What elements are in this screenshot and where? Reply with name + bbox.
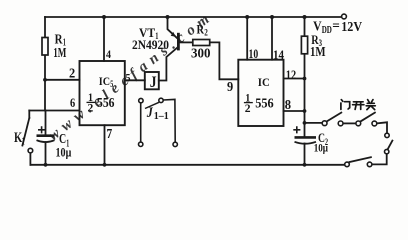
svg-text:556: 556 bbox=[255, 97, 274, 112]
svg-text:10μ: 10μ bbox=[56, 145, 72, 160]
svg-text:J: J bbox=[150, 74, 157, 91]
op-amp IC5 box bbox=[80, 61, 125, 125]
svg-text:J: J bbox=[146, 105, 153, 121]
wire R2 to pin9 bbox=[210, 42, 239, 79]
wire right vertical down bbox=[372, 154, 387, 165]
terminal VDD circle bbox=[342, 14, 347, 19]
wire K1 bottom bbox=[29, 153, 31, 165]
svg-text:IC: IC bbox=[258, 75, 270, 89]
svg-text:9: 9 bbox=[227, 80, 233, 95]
svg-text:2: 2 bbox=[69, 67, 75, 82]
wire R3 branch vertical bbox=[304, 17, 306, 137]
svg-text:10μ: 10μ bbox=[314, 140, 328, 154]
wire K1 top bbox=[28, 111, 30, 119]
svg-text:6: 6 bbox=[70, 95, 76, 110]
svg-text:2: 2 bbox=[204, 29, 208, 39]
svg-text:=: = bbox=[332, 19, 340, 34]
relay coil J box bbox=[145, 72, 159, 89]
wire pin6 horizontal bbox=[29, 110, 79, 112]
svg-text:DD: DD bbox=[322, 25, 332, 36]
wire C1 bottom bbox=[45, 142, 47, 165]
svg-text:2: 2 bbox=[88, 101, 94, 115]
op-amp IC box bbox=[238, 60, 283, 126]
label door switch 门开关 bbox=[341, 100, 375, 110]
switch K1 blade bbox=[22, 118, 29, 146]
svg-text:5: 5 bbox=[126, 71, 131, 85]
watermark www.elecfans.com bbox=[46, 8, 217, 144]
svg-text:14: 14 bbox=[273, 47, 284, 62]
wire pin8 bbox=[284, 110, 305, 112]
svg-text:1: 1 bbox=[22, 137, 25, 148]
svg-text:12V: 12V bbox=[341, 20, 362, 35]
wire left vertical bbox=[44, 17, 46, 111]
wire door switch branch bbox=[305, 122, 323, 124]
wire C2 bottom bbox=[304, 144, 306, 165]
svg-text:7: 7 bbox=[107, 127, 113, 142]
paper background bbox=[0, 0, 408, 187]
wire C1 top bbox=[45, 111, 47, 136]
relay contact J1-1 bbox=[139, 98, 178, 146]
svg-text:IC: IC bbox=[99, 74, 110, 88]
node pin8 junction bbox=[303, 109, 307, 113]
svg-text:300: 300 bbox=[191, 47, 211, 62]
resistor R3 bbox=[301, 36, 307, 54]
wire pin14 vertical bbox=[271, 17, 273, 60]
wire top rail bbox=[45, 16, 342, 18]
transistor Q1 bar bbox=[177, 33, 180, 51]
label IC fraction 1/2 bbox=[244, 91, 253, 116]
wire J to collector bbox=[159, 47, 178, 81]
svg-text:556: 556 bbox=[97, 96, 115, 111]
svg-text:2N4920: 2N4920 bbox=[132, 38, 169, 52]
node pin12 junction bbox=[303, 77, 307, 81]
wire bottom rail bbox=[30, 164, 344, 166]
svg-text:10: 10 bbox=[249, 46, 259, 61]
capacitor C1 plates bbox=[37, 136, 55, 142]
capacitor C2 plus bbox=[293, 126, 300, 133]
wire pin2 bbox=[45, 79, 80, 81]
node bottom rail junctions bbox=[44, 163, 307, 167]
resistor R2 bbox=[193, 40, 210, 46]
svg-text:1M: 1M bbox=[53, 46, 66, 61]
wire pin10 vertical bbox=[246, 17, 248, 60]
transistor Q1 emitter arrow bbox=[171, 32, 176, 37]
node switch branch junction bbox=[303, 121, 307, 125]
wire pin5 to J bbox=[125, 79, 145, 81]
switch S3 blade bbox=[388, 141, 393, 150]
wire S2 to right corner bbox=[377, 122, 387, 133]
svg-text:1M: 1M bbox=[310, 44, 326, 59]
svg-text:12: 12 bbox=[286, 67, 296, 82]
capacitor C1 plus bbox=[38, 126, 45, 133]
svg-text:4: 4 bbox=[106, 47, 111, 61]
label IC5 fraction 1/2 bbox=[87, 90, 96, 115]
svg-text:1–1: 1–1 bbox=[154, 111, 169, 122]
wire base bbox=[180, 41, 193, 43]
resistor R1 bbox=[42, 38, 48, 56]
svg-text:5: 5 bbox=[110, 79, 113, 89]
svg-text:8: 8 bbox=[285, 98, 291, 113]
node top rail junctions bbox=[102, 15, 307, 19]
capacitor C2 plates bbox=[295, 137, 317, 143]
wire emitter bbox=[168, 17, 177, 38]
switch door circles bbox=[322, 121, 389, 167]
switch S4 blade bbox=[350, 157, 371, 162]
wire pin7 vertical bbox=[104, 125, 106, 165]
svg-text:2: 2 bbox=[245, 101, 251, 115]
switch K1 terminal circle bbox=[28, 148, 33, 153]
svg-text:V: V bbox=[313, 20, 322, 35]
wire S1-S2 bbox=[343, 122, 356, 124]
switch S1 blade bbox=[327, 113, 341, 122]
wire pin4 vertical bbox=[103, 17, 105, 61]
switch S2 blade bbox=[361, 113, 375, 122]
wire pin12 bbox=[284, 78, 305, 80]
node pin2 junction bbox=[43, 78, 47, 82]
